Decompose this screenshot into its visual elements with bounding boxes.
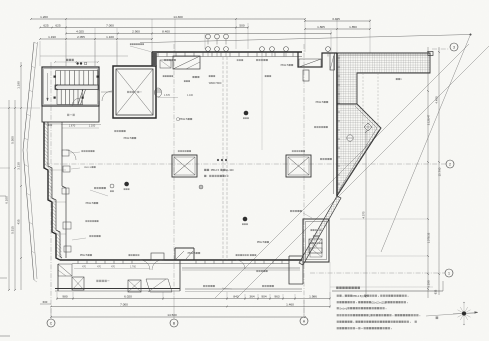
small labels top-left interior <box>114 130 116 132</box>
svg-text:633: 633 <box>434 289 438 294</box>
svg-text:2: 2 <box>449 163 451 167</box>
terrace band end cap <box>428 52 433 56</box>
svg-text:PB12.5: PB12.5 <box>86 202 94 205</box>
elevator shaft walls <box>113 66 156 118</box>
pentagon inner parapet lines <box>357 104 380 127</box>
terrace pentagon (tile) <box>337 104 381 196</box>
interior shaft column 1 <box>172 155 197 177</box>
svg-text:8.400: 8.400 <box>162 29 170 33</box>
top dimension row 4.025 2.900 8.400 <box>66 33 331 35</box>
svg-text:3.128.47: 3.128.47 <box>427 114 431 125</box>
symbol cross circle <box>199 185 203 189</box>
north wall notch with ramp box (right) <box>298 52 337 67</box>
svg-text:4.400: 4.400 <box>435 96 439 104</box>
room below stair <box>42 106 99 122</box>
svg-text:PB12.5: PB12.5 <box>281 64 289 67</box>
north arrow <box>464 313 475 315</box>
south wall door opening arcs <box>140 260 150 270</box>
east wall mullion ticks <box>337 57 340 59</box>
svg-text:1.670: 1.670 <box>164 94 171 97</box>
grid line C (vertical x=51) <box>50 62 52 316</box>
stair newel posts <box>54 76 56 78</box>
svg-text:± 0: ± 0 <box>225 174 229 178</box>
grid line 1 (horizontal y=273) <box>310 272 445 274</box>
stair arrow <box>47 73 49 100</box>
grid circle 3 <box>450 43 458 51</box>
svg-text:5.515: 5.515 <box>11 226 15 234</box>
svg-text:6.020: 6.020 <box>124 294 132 298</box>
interior door arc SW <box>66 150 76 160</box>
SE diagonal parapet (tile band) <box>299 196 341 265</box>
svg-text:625: 625 <box>55 23 60 27</box>
stair upper flight treads <box>55 71 57 86</box>
west wall stepped <box>44 122 60 260</box>
top dimension row 14.300 <box>31 18 305 20</box>
svg-text:1.805: 1.805 <box>317 25 325 29</box>
left vertical dims <box>8 100 10 290</box>
vertical dim through terrace <box>365 130 367 298</box>
svg-text:PB12.5(t): PB12.5(t) <box>353 294 364 298</box>
extension lines bottom <box>56 292 58 300</box>
stair label <box>66 59 68 61</box>
dots above stair wall <box>76 62 78 64</box>
svg-text:PB12.5: PB12.5 <box>257 242 265 244</box>
balcony SW hatch corner <box>58 264 72 276</box>
svg-text:PB12.5: PB12.5 <box>316 101 324 104</box>
right vertical dim line a <box>427 47 429 298</box>
svg-text:435: 435 <box>17 219 21 224</box>
svg-text:7.000: 7.000 <box>120 302 128 306</box>
svg-text:963: 963 <box>274 294 279 298</box>
svg-text:: PB12.5: : PB12.5 <box>209 168 219 172</box>
bottom dim row small segments <box>57 298 330 300</box>
mullion ticks on north glazing <box>157 52 159 57</box>
svg-text:1.578.33: 1.578.33 <box>427 232 431 243</box>
note lines <box>337 295 339 297</box>
svg-text:14.500: 14.500 <box>167 313 177 317</box>
sight diagonal 1 <box>215 44 469 298</box>
balcony louver <box>146 279 172 292</box>
light link lines to right dims <box>340 218 428 220</box>
north arrow baseline <box>426 313 477 317</box>
dots row <box>217 159 219 161</box>
grid circle A <box>300 317 308 325</box>
svg-text:5.500: 5.500 <box>11 136 15 144</box>
fixture right of elevator <box>155 88 162 97</box>
grid line B (vertical x=174) <box>173 44 175 296</box>
svg-text:364: 364 <box>249 294 254 298</box>
terrace drain circle <box>347 135 353 141</box>
apex point <box>470 34 472 36</box>
balcony slab <box>55 288 180 290</box>
west wall step jogs <box>48 169 66 171</box>
west wall hatch fill <box>44 122 62 260</box>
svg-text:500: 500 <box>239 23 244 27</box>
stair break line <box>78 90 83 105</box>
small column below right notch <box>303 70 309 81</box>
left horizontal stray lines <box>0 107 40 109</box>
circles on north wall <box>206 47 211 52</box>
SE room <box>303 219 329 262</box>
svg-text:S+(t+t): S+(t+t) <box>339 306 347 310</box>
svg-text:PB12.5: PB12.5 <box>180 118 188 121</box>
svg-text:625: 625 <box>43 23 48 27</box>
terrace drain diamond <box>364 123 372 131</box>
svg-text:PB12.5: PB12.5 <box>80 255 88 257</box>
circles on boundary above wall <box>206 34 211 39</box>
canopy line right of balcony <box>182 267 300 269</box>
balcony equipment box 1 <box>72 277 84 290</box>
balcony inner small dims <box>74 268 150 270</box>
west wall inner face <box>61 122 63 186</box>
SE step walls <box>289 256 303 284</box>
south wall <box>60 259 302 261</box>
south wall mullions <box>77 260 79 264</box>
svg-text:980: 980 <box>62 294 67 298</box>
svg-text:1.760: 1.760 <box>130 267 136 269</box>
ceiling note center <box>204 169 206 171</box>
symbol circle small <box>110 184 114 188</box>
svg-text:PB12.5: PB12.5 <box>188 252 196 255</box>
stair room outline <box>42 67 99 106</box>
svg-text:4.575: 4.575 <box>362 211 366 218</box>
terrace top band (tile) <box>337 53 430 104</box>
fire hydrant dot upper <box>244 111 249 116</box>
north wall main <box>152 51 302 53</box>
grid circle 2 <box>446 160 454 168</box>
site boundary north (slanted line to apex) <box>140 35 471 43</box>
equipment box on SE steps <box>309 239 322 253</box>
svg-text:3: 3 <box>453 46 455 50</box>
svg-text:1.986: 1.986 <box>309 294 317 298</box>
dashes from band corners <box>362 73 364 125</box>
grid circle B <box>170 319 178 327</box>
right vertical dim line b <box>438 47 440 295</box>
svg-text:600: 600 <box>43 300 48 304</box>
grid circle 1 <box>445 269 453 277</box>
svg-text:1.850: 1.850 <box>349 25 357 29</box>
west side extra fixtures <box>62 150 69 156</box>
svg-text:7.000: 7.000 <box>106 23 114 27</box>
top dimension row 1.190 1.100 <box>40 38 152 40</box>
extension lines from top dimensions <box>65 19 67 66</box>
svg-text:15.760: 15.760 <box>438 167 442 176</box>
sight diagonal 2 <box>237 46 489 298</box>
symbol dot 1 <box>124 182 129 187</box>
symbol dot 2 <box>243 217 248 222</box>
elevator X diagonals <box>116 69 153 115</box>
svg-text:EL.300: EL.300 <box>226 168 235 172</box>
stair middle landing band <box>55 85 98 90</box>
bottom dim row 7.000 <box>51 306 330 308</box>
stair tread dims <box>55 61 98 63</box>
svg-text:PB12.5: PB12.5 <box>84 167 92 169</box>
svg-text:843: 843 <box>233 294 238 298</box>
svg-text:1.460: 1.460 <box>286 302 294 306</box>
hall NW fixture <box>160 60 171 68</box>
svg-text:1.100: 1.100 <box>187 94 194 97</box>
svg-text:6.190: 6.190 <box>427 280 431 288</box>
svg-text:2.900: 2.900 <box>132 29 140 33</box>
svg-text:904: 904 <box>261 294 266 298</box>
bottom dim row 14.500 <box>51 316 305 318</box>
interior shaft column 2 <box>286 155 311 177</box>
svg-text:1.670: 1.670 <box>69 124 76 128</box>
top dimension row 1.805 1.850 <box>305 28 370 30</box>
svg-text:14.300: 14.300 <box>173 15 183 19</box>
labels below north wall <box>164 59 166 61</box>
grid line A (vertical x=304) <box>303 44 305 316</box>
balcony parapet corner braces <box>174 248 176 260</box>
grid line 2 (horizontal y=164) <box>45 163 446 165</box>
svg-text:1: 1 <box>448 272 450 276</box>
north wall ramp box (left) <box>173 56 200 69</box>
svg-text:400: 400 <box>48 123 53 127</box>
note block title <box>336 287 338 290</box>
svg-text:1.200: 1.200 <box>40 15 48 19</box>
svg-text:6.100: 6.100 <box>5 196 9 204</box>
grid line 3 link to circle <box>432 48 449 50</box>
grid circle C <box>47 319 55 327</box>
svg-text:4.025: 4.025 <box>76 29 84 33</box>
top dimension row 7.000 / 500 <box>40 27 248 29</box>
locker rect near south wall <box>151 253 164 260</box>
pilaster near band junction <box>330 53 335 70</box>
west side fixtures <box>62 188 69 194</box>
east wall of hall <box>336 53 338 196</box>
stair door arc bottom <box>72 98 80 106</box>
svg-text:1.190: 1.190 <box>17 81 21 89</box>
svg-text:1.100: 1.100 <box>106 35 114 39</box>
svg-text:(5)+(2)+(25): (5)+(2)+(25) <box>372 300 386 304</box>
top dimension row 3.465 <box>305 20 370 22</box>
svg-text:PB12.5: PB12.5 <box>124 137 132 140</box>
partition track (vertical dashed pair) <box>222 57 224 260</box>
balcony equipment box 2 <box>128 280 141 292</box>
svg-text:2.055: 2.055 <box>77 35 85 39</box>
svg-text:3.130: 3.130 <box>17 162 21 170</box>
stair lower flight treads <box>56 90 58 105</box>
svg-text:1.190: 1.190 <box>48 35 56 39</box>
svg-text:W800 H600: W800 H600 <box>209 82 222 85</box>
svg-text:3.465: 3.465 <box>332 17 340 21</box>
canopy line above stair <box>40 55 128 57</box>
site boundary west (double slanted) <box>23 42 34 280</box>
sight diagonal steep (apex to grid 3) <box>381 35 471 253</box>
door gap between stair and elevator <box>101 91 113 93</box>
svg-text:1.100: 1.100 <box>89 124 96 128</box>
